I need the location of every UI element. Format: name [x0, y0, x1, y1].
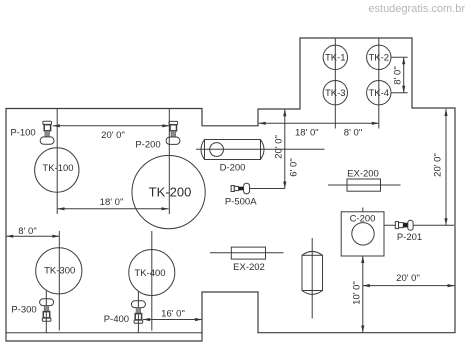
exchanger EX-202 [231, 247, 265, 273]
svg-text:P-400: P-400 [104, 314, 129, 325]
tank TK-100 [35, 148, 79, 192]
tank TK-400 [129, 250, 175, 296]
wire TK-400 column [151, 231, 153, 331]
road line bottom [6, 332, 202, 334]
svg-text:C-200: C-200 [350, 214, 376, 225]
svg-text:20' 0": 20' 0" [396, 273, 420, 284]
wire EX-200 line [328, 184, 401, 186]
tank TK-1 [323, 45, 347, 69]
svg-text:EX-202: EX-202 [233, 262, 265, 273]
svg-text:8' 0": 8' 0" [18, 226, 36, 237]
pump P-400 [104, 301, 146, 325]
pump P-201 [395, 220, 422, 243]
svg-text:TK-300: TK-300 [44, 266, 75, 277]
pump P-200 [135, 121, 180, 150]
svg-text:TK-100: TK-100 [42, 163, 73, 174]
tank TK-2 [367, 45, 391, 69]
dimension 20'0" and 6'0" middle [273, 109, 299, 188]
wire TK-300 column [58, 231, 60, 331]
svg-text:P-300: P-300 [11, 305, 36, 316]
dimension 18'0" mid-left [58, 197, 169, 211]
svg-text:6' 0": 6' 0" [288, 158, 299, 176]
dimension 16'0" bottom [143, 308, 202, 321]
svg-text:estudegratis.com.br: estudegratis.com.br [368, 3, 465, 15]
tank TK-300 [36, 248, 82, 294]
svg-text:16' 0": 16' 0" [161, 308, 185, 319]
svg-text:P-500A: P-500A [225, 196, 257, 207]
svg-text:20' 0": 20' 0" [433, 153, 444, 177]
dimension 10'0" [352, 256, 365, 333]
svg-text:EX-200: EX-200 [347, 168, 379, 179]
tank TK-200 [132, 156, 205, 229]
svg-text:8' 0": 8' 0" [344, 127, 362, 138]
wire EX-202 line [210, 252, 284, 254]
dimension 8'0" tank block right [392, 57, 408, 92]
svg-text:20' 0": 20' 0" [273, 135, 284, 159]
tank TK-4 [367, 81, 391, 105]
dimension 20'0" right [433, 109, 448, 225]
svg-text:TK-4: TK-4 [369, 88, 390, 99]
wire drum column [311, 238, 313, 319]
wire P-500A line [250, 188, 285, 190]
svg-text:TK-200: TK-200 [149, 185, 192, 200]
svg-text:18' 0": 18' 0" [295, 127, 319, 138]
svg-text:P-201: P-201 [397, 232, 422, 243]
svg-text:TK-400: TK-400 [134, 268, 165, 279]
exchanger EX-200 [347, 168, 381, 191]
svg-text:18' 0": 18' 0" [100, 197, 124, 208]
svg-text:P-200: P-200 [135, 140, 160, 151]
dimension 8'0" left [6, 226, 59, 238]
svg-text:8' 0": 8' 0" [392, 66, 403, 84]
tank TK-3 [323, 81, 347, 105]
svg-text:TK-3: TK-3 [325, 88, 346, 99]
wire TK-1 TK-3 column [334, 38, 336, 129]
wire D-200 centerline [196, 148, 325, 150]
pump P-300 [11, 299, 53, 321]
pump P-500A [225, 183, 257, 207]
vessel D-200 [201, 140, 264, 174]
svg-text:10' 0": 10' 0" [352, 281, 363, 305]
compressor C-200 [341, 212, 384, 256]
wire C-200 stub [362, 208, 364, 212]
wire P-400 suction [137, 291, 139, 333]
wire TK-200 column [168, 109, 170, 215]
svg-text:TK-2: TK-2 [369, 53, 390, 64]
svg-text:P-100: P-100 [10, 127, 35, 138]
dimension 20'0" bottom-right [363, 273, 455, 287]
dimension 18'0" and 8'0" top-right [259, 122, 379, 139]
svg-text:TK-1: TK-1 [325, 53, 346, 64]
wire TK-100 column [56, 109, 58, 215]
wire P-201 line [384, 224, 454, 226]
svg-text:D-200: D-200 [220, 163, 246, 174]
wire TK-2 TK-4 column [378, 38, 380, 129]
wire P-300 suction [45, 291, 47, 333]
svg-text:20' 0": 20' 0" [101, 130, 125, 141]
drum vertical vessel [302, 251, 323, 294]
pump P-100 [10, 121, 54, 144]
dimension 20'0" top-left [53, 124, 170, 141]
